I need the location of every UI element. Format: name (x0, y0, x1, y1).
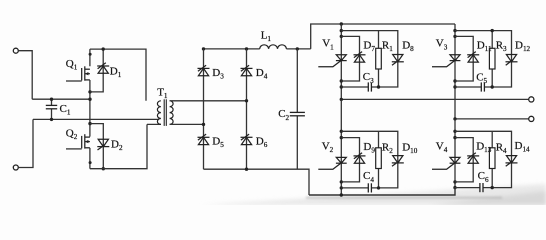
wire secondary bottom to bridge (170, 123, 204, 125)
capacitor C1 plates (46, 105, 57, 108)
resistor R3 (489, 48, 495, 69)
capacitor C4 plates (368, 183, 371, 192)
node rail A junction at midpoint (88, 98, 91, 101)
node D1 anode junction (88, 90, 91, 93)
thyristor V1 (318, 55, 346, 67)
wire Q1 gate lead (66, 80, 82, 82)
diode D9 (354, 153, 366, 164)
node C1 bottom junction (50, 118, 53, 121)
node Q1 drain dot (89, 53, 92, 56)
node Q2 source dot (89, 161, 92, 164)
wire rail A (input+/C1 top/Q1 source) (32, 98, 90, 100)
node D2 bottom junction (102, 167, 105, 170)
wire secondary top to bridge (170, 100, 247, 102)
node V1 D7 tap (340, 35, 343, 38)
wire C4 left lead (341, 187, 368, 189)
scan shadow under bottom rail (306, 197, 502, 199)
node V1 D7 return (340, 79, 343, 82)
capacitor C2 plates (290, 112, 305, 115)
capacitor C3 plates (368, 82, 371, 91)
wire D11 branch (455, 36, 473, 81)
node bridge left mid (secondary bottom) (202, 123, 205, 126)
wire inverter bottom rail (309, 188, 455, 195)
wire Q2 gate lead (66, 148, 82, 150)
wire R2 leads (378, 131, 380, 188)
wire D12 lower lead (484, 55, 511, 87)
node R2 bottom junction (377, 186, 380, 189)
wire V1 main line (340, 24, 342, 99)
wire right-leg output (455, 118, 529, 120)
node V4 box tap (453, 130, 456, 133)
wire Q2 source down (89, 148, 91, 169)
node V4 D13 return (453, 180, 456, 183)
transformer T1 primary winding (157, 101, 161, 125)
transformer T1 core (164, 99, 166, 126)
node D2 top junction (88, 122, 91, 125)
scan shadow bottom wash (200, 184, 546, 205)
node V3 D11 tap (453, 35, 456, 38)
wire R3 leads (491, 31, 493, 87)
node V4 C6 junction (453, 186, 456, 189)
wire V4 main line (454, 119, 456, 188)
resistor R4 (489, 148, 495, 169)
diode D5 (198, 134, 210, 145)
node V1 box tap (340, 29, 343, 32)
resistor R2 (376, 148, 382, 169)
capacitor C1 leads (51, 99, 53, 119)
diode D7 (354, 52, 366, 63)
node V3 C5 junction (453, 85, 456, 88)
wire D2 branch (90, 124, 103, 169)
output terminal 2 (529, 116, 534, 121)
diode D4 (241, 65, 253, 76)
resistor R1 (376, 48, 382, 69)
wire V2 main line (340, 99, 342, 195)
node V2 D9 return (340, 180, 343, 183)
wire R2/D10 box top (341, 131, 398, 155)
wire D8 lower lead (371, 55, 397, 87)
scan shadow bottom-right corner (430, 191, 546, 205)
node output tap right leg (453, 117, 456, 120)
node R4 bottom junction (491, 186, 494, 189)
node V2 C4 junction (340, 186, 343, 189)
node R3 bottom junction (491, 85, 494, 88)
node bridge top-right (245, 47, 248, 50)
wire input+ to node (18, 51, 32, 99)
thyristor V3 (432, 55, 460, 67)
node bridge right mid (secondary top) (245, 99, 248, 102)
transformer T1 secondary winding (170, 101, 174, 125)
wire Q1 source / half-bridge midpoint vertical (89, 80, 91, 137)
node bridge bottom D6 (245, 168, 248, 171)
node R3 top junction (491, 29, 494, 32)
diode D6 (241, 134, 253, 145)
wire R4/D14 box top (455, 131, 512, 155)
node V1 C3 junction (340, 85, 343, 88)
diode D2 (97, 139, 109, 150)
wire R3/D12 box top (455, 31, 512, 55)
diode D13 (467, 153, 479, 164)
wire bridge bottom rail (204, 169, 310, 195)
wire D3/D5 column (203, 49, 205, 169)
diode D1 (97, 63, 109, 74)
wire R1 leads (378, 31, 380, 87)
thyristor V4 (432, 157, 460, 169)
wire C5 left lead (455, 86, 481, 88)
wire D9 branch (341, 138, 359, 182)
wire C3 left lead (341, 86, 368, 88)
diode D14 (506, 156, 518, 167)
wire Q2/D2 source to primary bottom (90, 124, 161, 168)
wire V3 main line (454, 24, 456, 119)
transistor Q2 (MOSFET) (82, 134, 90, 148)
diode D10 (392, 156, 404, 167)
diode D8 (392, 55, 404, 66)
node V3 D11 return (453, 79, 456, 82)
node R1 bottom junction (377, 85, 380, 88)
wire C6 left lead (455, 187, 480, 189)
node C1 top junction (50, 98, 53, 101)
input terminal - (bottom-left) (13, 165, 18, 170)
wire Q1 drain rail to transformer (90, 49, 146, 101)
diode D3 (198, 65, 210, 76)
thyristor V2 (318, 157, 346, 169)
node C2 top junction (296, 47, 299, 50)
capacitor C5 plates (481, 82, 484, 91)
node D1 top junction (102, 47, 105, 50)
node V4 D13 tap (453, 136, 456, 139)
node output tap left leg (340, 98, 343, 101)
node V2 D9 tap (340, 136, 343, 139)
transistor Q1 (MOSFET) (82, 66, 90, 80)
capacitor C6 plates (480, 183, 483, 192)
node V2 box tap (340, 130, 343, 133)
wire D14 lower lead (483, 156, 512, 188)
wire rail B (C1 bottom / primary center tap) (33, 118, 159, 120)
inductor L1 (260, 45, 287, 49)
diode D12 (506, 55, 518, 66)
diode D11 (467, 52, 479, 63)
node V2 bottom junction (340, 193, 343, 196)
wire left-leg output (341, 98, 528, 100)
wire R1/D8 box top (341, 31, 398, 55)
node top rail V1 tap (340, 22, 343, 25)
wire D7 branch (341, 36, 359, 81)
wire D1 branch (90, 49, 103, 92)
wire D10 lower lead (371, 156, 397, 188)
wire input- to rail B (18, 119, 33, 167)
output terminal 1 (529, 97, 534, 102)
wire inverter top rail (311, 24, 455, 49)
node bridge top-left (202, 47, 205, 50)
input terminal + (top-left) (13, 48, 18, 53)
wire D4/D6 column (246, 49, 248, 169)
wire R4 leads (491, 131, 493, 187)
wire bridge top rail to L1 (204, 48, 311, 50)
node V3 box tap (453, 29, 456, 32)
wire C2 column (296, 49, 298, 169)
wire D13 branch (455, 138, 473, 182)
